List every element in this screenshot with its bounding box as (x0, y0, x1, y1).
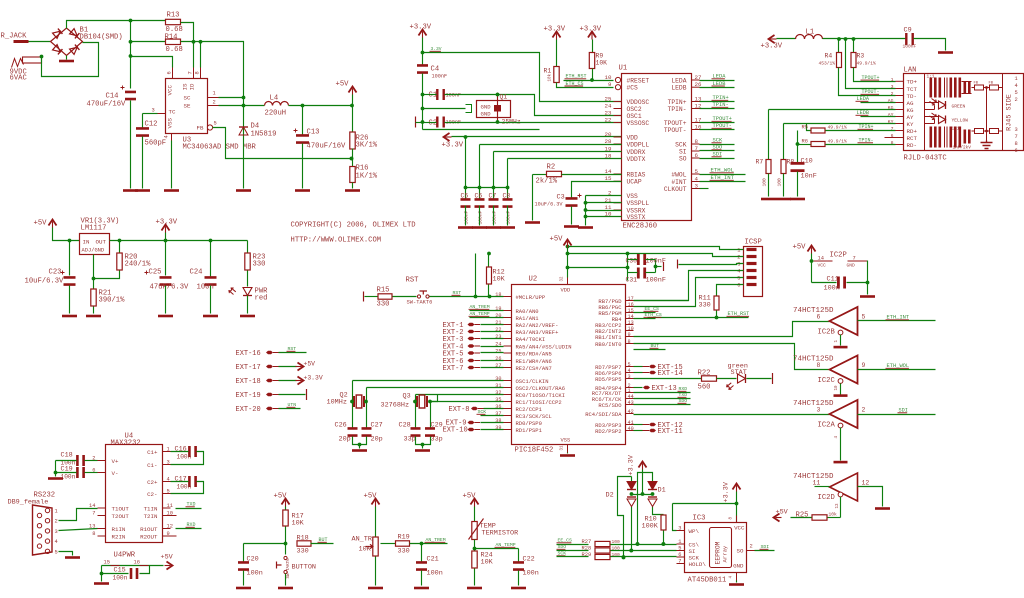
svg-text:RCT: RCT (907, 135, 918, 142)
svg-text:6: 6 (1015, 148, 1018, 154)
svg-text:RC1/T1OSI/CCP2: RC1/T1OSI/CCP2 (516, 399, 562, 406)
svg-text:WP\: WP\ (689, 528, 700, 535)
svg-text:IC2C: IC2C (818, 377, 836, 385)
svg-text:RJLD-043TC: RJLD-043TC (904, 155, 948, 163)
svg-text:U1: U1 (619, 65, 628, 73)
svg-text:VDDPLL: VDDPLL (627, 141, 650, 148)
svg-text:C22: C22 (523, 556, 535, 564)
svg-text:C11: C11 (827, 276, 839, 284)
svg-text:GND: GND (481, 104, 492, 111)
svg-text:SE: SE (184, 103, 191, 110)
svg-text:+5V: +5V (161, 554, 174, 562)
svg-text:RE1/WR#/AN6: RE1/WR#/AN6 (516, 358, 552, 365)
svg-text:8: 8 (628, 339, 631, 345)
svg-text:MC34063AD SMD MBR: MC34063AD SMD MBR (183, 144, 257, 152)
svg-text:32: 32 (495, 390, 501, 396)
svg-text:IC2B: IC2B (818, 329, 836, 337)
svg-text:C10: C10 (801, 158, 813, 166)
svg-text:100nF: 100nF (505, 210, 511, 224)
svg-text:FB: FB (197, 125, 204, 132)
svg-text:VDDOSC: VDDOSC (627, 99, 650, 106)
svg-text:EXT-14: EXT-14 (658, 370, 683, 378)
svg-text:R22: R22 (698, 370, 711, 378)
svg-text:HTTP://WWW.OLIMEX.COM: HTTP://WWW.OLIMEX.COM (291, 237, 382, 245)
svg-text:OUT: OUT (96, 239, 107, 246)
svg-text:CLKOUT: CLKOUT (664, 186, 687, 193)
svg-text:5: 5 (678, 546, 681, 552)
svg-text:20p: 20p (371, 436, 383, 444)
svg-text:Q3: Q3 (403, 393, 411, 401)
svg-text:SW-TAKT6: SW-TAKT6 (287, 558, 291, 579)
svg-text:C2-: C2- (147, 491, 157, 498)
svg-text:3: 3 (678, 526, 681, 532)
svg-text:Array: Array (722, 545, 729, 562)
svg-text:100K: 100K (642, 523, 659, 531)
svg-text:10k: 10k (548, 73, 553, 81)
svg-text:560pF: 560pF (145, 140, 167, 148)
svg-text:C2: C2 (429, 120, 438, 128)
svg-text:49.9/1%: 49.9/1% (828, 125, 848, 131)
svg-text:10uF/6.3V: 10uF/6.3V (535, 202, 564, 208)
svg-text:+5V: +5V (34, 220, 48, 228)
svg-text:31: 31 (495, 383, 501, 389)
svg-text:100nF: 100nF (491, 210, 497, 224)
svg-text:74HCT125D: 74HCT125D (793, 400, 834, 408)
svg-text:GREEN: GREEN (952, 104, 966, 110)
svg-text:R5: R5 (802, 125, 808, 131)
svg-text:R25: R25 (796, 512, 809, 520)
svg-text:5: 5 (1015, 90, 1018, 96)
svg-text:7: 7 (92, 511, 95, 517)
svg-text:VCC: VCC (734, 525, 745, 532)
svg-text:1: 1 (891, 77, 894, 83)
svg-text:LM1117: LM1117 (81, 225, 107, 233)
svg-text:RA3/AN3/VREF+: RA3/AN3/VREF+ (516, 329, 559, 336)
svg-text:1: 1 (213, 91, 216, 97)
svg-text:10: 10 (605, 74, 612, 81)
svg-text:100nF: 100nF (463, 210, 469, 224)
svg-text:RC0/T1OSO/T1CKI: RC0/T1OSO/T1CKI (516, 392, 566, 399)
svg-text:ENC28J60: ENC28J60 (623, 223, 658, 231)
svg-text:R_JACK: R_JACK (1, 33, 28, 41)
svg-text:+3.3V: +3.3V (410, 24, 432, 32)
svg-text:1K/1%: 1K/1% (356, 173, 378, 181)
svg-text:+3.3V: +3.3V (304, 375, 323, 382)
svg-text:8: 8 (1015, 141, 1018, 147)
svg-text:9: 9 (628, 332, 631, 338)
svg-text:RC3/SCK/SCL: RC3/SCK/SCL (516, 413, 552, 420)
svg-text:25: 25 (605, 96, 612, 103)
svg-text:330: 330 (699, 302, 711, 310)
svg-text:EXT-16: EXT-16 (236, 350, 261, 358)
svg-text:TPOUT-: TPOUT- (664, 127, 687, 134)
svg-text:100nF: 100nF (646, 258, 666, 266)
svg-text:C21: C21 (427, 556, 439, 564)
svg-text:BUTTON: BUTTON (292, 564, 316, 572)
svg-text:IC2P: IC2P (830, 252, 847, 260)
svg-text:C14: C14 (106, 93, 119, 101)
svg-text:6: 6 (737, 283, 740, 289)
svg-text:330: 330 (398, 548, 410, 556)
svg-text:C23: C23 (49, 269, 62, 277)
svg-text:390/1%: 390/1% (99, 297, 126, 305)
svg-text:47uF/6.3V: 47uF/6.3V (150, 284, 190, 292)
svg-text:SW-TAKT6: SW-TAKT6 (407, 300, 433, 306)
svg-text:10K: 10K (481, 559, 494, 567)
svg-text:R15: R15 (377, 287, 390, 295)
svg-text:18: 18 (495, 292, 501, 298)
svg-text:C2+: C2+ (147, 479, 158, 486)
svg-text:EXT-7: EXT-7 (443, 365, 464, 373)
svg-text:6: 6 (891, 133, 894, 139)
svg-text:D4: D4 (251, 123, 260, 131)
svg-text:VCC: VCC (167, 85, 174, 96)
svg-text:RA2/AN2/VREF-: RA2/AN2/VREF- (516, 322, 559, 329)
svg-text:RC4/SDI/SDA: RC4/SDI/SDA (585, 411, 622, 418)
svg-text:2: 2 (891, 91, 894, 97)
svg-text:330: 330 (377, 301, 390, 309)
svg-text:IC3: IC3 (693, 515, 706, 523)
svg-text:470uF/16V: 470uF/16V (87, 101, 127, 109)
svg-text:10nF: 10nF (801, 173, 817, 181)
svg-text:10MHz: 10MHz (327, 399, 347, 407)
svg-text:31: 31 (561, 445, 565, 451)
svg-text:D2: D2 (606, 492, 614, 500)
svg-text:9: 9 (608, 81, 612, 88)
svg-text:OSC2: OSC2 (627, 106, 642, 113)
svg-text:22: 22 (495, 327, 501, 333)
svg-text:R1IN: R1IN (112, 526, 126, 533)
svg-text:C25: C25 (149, 269, 162, 277)
svg-text:23: 23 (605, 110, 612, 117)
svg-text:3: 3 (891, 84, 894, 90)
svg-text:3: 3 (167, 460, 170, 466)
svg-text:13: 13 (836, 503, 840, 509)
svg-text:+5V: +5V (793, 244, 807, 252)
svg-text:TC: TC (169, 109, 176, 116)
svg-text:8: 8 (92, 531, 95, 537)
svg-text:+3.3V: +3.3V (723, 481, 731, 502)
svg-text:4: 4 (164, 135, 170, 138)
svg-text:330: 330 (297, 548, 309, 556)
svg-text:RA0/AN0: RA0/AN0 (516, 308, 539, 315)
svg-text:1N5819: 1N5819 (251, 131, 277, 139)
svg-text:38: 38 (495, 418, 501, 424)
svg-text:AY: AY (888, 112, 894, 118)
svg-text:5: 5 (167, 489, 170, 495)
svg-text:3: 3 (817, 407, 821, 414)
svg-text:100n: 100n (523, 570, 539, 578)
svg-text:3: 3 (628, 374, 631, 380)
svg-text:TPIN+: TPIN+ (668, 99, 687, 106)
svg-text:RB0/INT0: RB0/INT0 (595, 341, 621, 348)
svg-text:5: 5 (55, 549, 58, 555)
svg-text:6: 6 (695, 152, 699, 159)
svg-text:R2: R2 (547, 164, 556, 172)
svg-text:RD2/PSP2: RD2/PSP2 (595, 428, 621, 435)
svg-text:KG: KG (888, 105, 894, 111)
svg-text:VDDRX: VDDRX (627, 149, 646, 156)
svg-text:10k: 10k (829, 512, 838, 518)
svg-text:R19: R19 (398, 534, 410, 542)
svg-text:C18: C18 (61, 452, 73, 460)
svg-text:ID: ID (189, 83, 196, 90)
svg-text:8: 8 (195, 71, 201, 74)
svg-text:R27: R27 (582, 539, 592, 545)
svg-text:453/1%: 453/1% (819, 61, 836, 67)
svg-text:RD-: RD- (907, 142, 917, 149)
svg-text:RE2/CS#/AN7: RE2/CS#/AN7 (516, 365, 552, 372)
svg-text:100n: 100n (113, 575, 128, 582)
svg-text:RC2/CCP1: RC2/CCP1 (516, 406, 543, 413)
svg-text:EXT-11: EXT-11 (658, 428, 683, 436)
svg-text:AG: AG (888, 98, 894, 104)
svg-text:#CS: #CS (627, 85, 639, 92)
svg-text:25: 25 (495, 349, 501, 355)
svg-text:49.9/1%: 49.9/1% (828, 139, 848, 145)
svg-text:100: 100 (762, 178, 768, 187)
svg-text:R18: R18 (297, 535, 309, 543)
svg-text:VSS: VSS (167, 118, 174, 129)
svg-text:10K: 10K (292, 520, 305, 528)
svg-text:ADJ/GND: ADJ/GND (82, 248, 105, 254)
svg-text:R3: R3 (857, 53, 865, 60)
svg-text:23: 23 (495, 334, 501, 340)
svg-text:40: 40 (628, 426, 634, 432)
svg-text:D1: D1 (658, 487, 666, 495)
svg-text:C1+: C1+ (147, 449, 158, 456)
svg-text:10K: 10K (359, 546, 372, 554)
svg-text:Q1: Q1 (500, 94, 508, 101)
svg-text:SC: SC (184, 95, 191, 102)
svg-text:R1OUT: R1OUT (140, 526, 158, 533)
svg-text:37: 37 (495, 411, 501, 417)
svg-text:VSSTX: VSSTX (627, 214, 646, 221)
svg-text:VDDTX: VDDTX (627, 156, 646, 163)
svg-text:6VAC: 6VAC (10, 75, 28, 83)
svg-text:U2: U2 (529, 276, 538, 284)
svg-text:R16: R16 (356, 165, 369, 173)
svg-text:330: 330 (253, 261, 266, 269)
svg-text:100: 100 (612, 552, 621, 558)
svg-text:39: 39 (495, 425, 501, 431)
svg-text:#INT: #INT (671, 179, 686, 186)
svg-text:VDD: VDD (627, 134, 639, 141)
svg-text:R6: R6 (802, 139, 808, 145)
svg-text:L4: L4 (270, 95, 279, 103)
svg-text:T1OUT: T1OUT (112, 505, 130, 512)
svg-text:R7: R7 (756, 159, 764, 166)
svg-text:C30: C30 (626, 258, 638, 265)
svg-text:C1-: C1- (147, 462, 157, 469)
svg-text:C1: C1 (429, 92, 438, 100)
svg-text:10: 10 (835, 385, 839, 391)
svg-text:14: 14 (818, 256, 824, 262)
svg-text:220uH: 220uH (265, 110, 287, 118)
svg-text:#MCLR/UPP: #MCLR/UPP (516, 294, 546, 301)
svg-text:TPIN-: TPIN- (668, 106, 687, 113)
svg-text:OSC1: OSC1 (627, 113, 642, 120)
svg-text:R13: R13 (167, 12, 180, 20)
svg-text:240/1%: 240/1% (125, 261, 152, 269)
svg-text:10uF/6.3V: 10uF/6.3V (25, 278, 65, 286)
svg-text:20: 20 (495, 313, 501, 319)
svg-text:C15: C15 (114, 567, 126, 575)
svg-text:4: 4 (737, 269, 740, 275)
svg-text:R2OUT: R2OUT (140, 533, 158, 540)
svg-text:IC2A: IC2A (818, 422, 836, 430)
svg-text:MAX3232: MAX3232 (111, 440, 141, 448)
svg-text:SO: SO (679, 155, 687, 162)
svg-text:1: 1 (1015, 76, 1018, 82)
svg-text:100n: 100n (177, 454, 192, 461)
svg-text:100n: 100n (824, 285, 840, 293)
svg-text:TPOUT+: TPOUT+ (664, 120, 687, 127)
svg-text:49.9/1%: 49.9/1% (857, 61, 877, 67)
svg-text:26: 26 (495, 356, 501, 362)
svg-text:GND: GND (733, 563, 744, 570)
svg-text:TCT: TCT (907, 86, 918, 93)
svg-text:KY: KY (888, 119, 894, 125)
svg-text:EXT-19: EXT-19 (236, 392, 261, 400)
svg-text:7: 7 (891, 126, 894, 132)
svg-text:R29: R29 (582, 552, 592, 558)
svg-text:EEPROM: EEPROM (715, 541, 722, 564)
svg-text:35: 35 (495, 397, 501, 403)
svg-text:4: 4 (695, 176, 699, 183)
svg-text:100n: 100n (247, 570, 263, 578)
svg-text:IN: IN (83, 239, 90, 246)
svg-text:LEDB: LEDB (671, 85, 686, 92)
svg-text:10K: 10K (493, 276, 506, 284)
svg-text:2: 2 (737, 255, 740, 261)
svg-text:4: 4 (1015, 83, 1018, 89)
svg-text:3: 3 (1015, 127, 1018, 133)
svg-text:8: 8 (891, 140, 894, 146)
svg-text:1: 1 (55, 509, 58, 515)
svg-text:6: 6 (817, 314, 821, 321)
svg-text:VSS: VSS (627, 193, 639, 200)
svg-text:YELLOW: YELLOW (952, 118, 969, 124)
svg-text:RBIAS: RBIAS (627, 171, 646, 178)
svg-text:+3.3V: +3.3V (628, 454, 636, 475)
svg-text:1: 1 (167, 447, 170, 453)
svg-text:C17: C17 (175, 476, 187, 484)
svg-text:3: 3 (695, 183, 699, 190)
svg-text:R2IN: R2IN (112, 533, 126, 540)
svg-text:T2IN: T2IN (144, 513, 158, 520)
svg-text:C4: C4 (431, 66, 440, 74)
svg-text:100nF: 100nF (446, 93, 462, 99)
svg-text:+5V: +5V (776, 509, 789, 517)
svg-text:AY: AY (907, 114, 914, 121)
svg-text:DB104(SMD): DB104(SMD) (80, 34, 123, 42)
svg-text:SI: SI (679, 148, 687, 155)
svg-text:8: 8 (695, 138, 699, 145)
svg-text:+3.3V: +3.3V (442, 142, 464, 150)
svg-text:100nF: 100nF (477, 210, 483, 224)
svg-text:AG: AG (907, 100, 914, 107)
svg-text:+5V: +5V (304, 361, 316, 368)
svg-text:+3.3V: +3.3V (544, 26, 566, 34)
svg-text:RC5/SDO: RC5/SDO (598, 402, 622, 409)
svg-text:27: 27 (495, 363, 501, 369)
svg-text:24: 24 (605, 103, 612, 110)
svg-text:TERMISTOR: TERMISTOR (482, 530, 519, 538)
svg-text:21: 21 (495, 320, 501, 326)
svg-text:#WOL: #WOL (671, 171, 686, 178)
svg-text:10K: 10K (596, 60, 608, 67)
svg-text:12: 12 (167, 524, 173, 530)
svg-text:43: 43 (628, 400, 634, 406)
svg-text:SCK: SCK (675, 141, 687, 148)
svg-text:IC2D: IC2D (818, 494, 835, 502)
svg-text:AT45DB011: AT45DB011 (688, 577, 727, 585)
svg-text:RD0/PSP0: RD0/PSP0 (516, 420, 542, 427)
svg-text:100n: 100n (427, 570, 443, 578)
svg-text:UCAP: UCAP (627, 179, 642, 186)
svg-text:7: 7 (853, 256, 856, 262)
svg-text:SO: SO (737, 548, 744, 555)
svg-text:1nF/2kV: 1nF/2kV (953, 146, 972, 151)
svg-text:0.68: 0.68 (166, 46, 183, 54)
svg-text:100nF: 100nF (903, 44, 917, 50)
svg-text:7: 7 (695, 145, 699, 152)
svg-text:GND: GND (847, 263, 856, 269)
svg-text:U4PWR: U4PWR (114, 552, 136, 560)
svg-text:C27: C27 (371, 422, 383, 430)
svg-text:7: 7 (188, 71, 194, 74)
svg-text:EXT-17: EXT-17 (236, 364, 261, 372)
svg-text:FB: FB (974, 82, 979, 86)
svg-text:20: 20 (605, 131, 612, 138)
svg-text:36: 36 (495, 404, 501, 410)
svg-text:2k/1%: 2k/1% (536, 178, 558, 186)
svg-text:FB: FB (989, 82, 994, 86)
svg-text:100n: 100n (177, 484, 192, 491)
svg-text:6: 6 (167, 71, 173, 74)
svg-text:red: red (255, 295, 268, 303)
svg-text:EXT-10: EXT-10 (443, 427, 468, 435)
svg-text:11: 11 (167, 503, 173, 509)
svg-text:4: 4 (167, 477, 170, 483)
svg-text:EXT-20: EXT-20 (236, 406, 261, 414)
svg-text:AN_TR: AN_TR (352, 536, 372, 544)
svg-text:2: 2 (750, 544, 753, 550)
svg-text:T1IN: T1IN (144, 505, 158, 512)
svg-text:2: 2 (1015, 97, 1018, 103)
svg-text:32: 32 (561, 276, 565, 282)
svg-text:12: 12 (862, 480, 870, 487)
svg-text:T2OUT: T2OUT (112, 513, 130, 520)
svg-text:#RESET: #RESET (627, 77, 650, 84)
svg-text:RD+: RD+ (907, 128, 918, 135)
svg-text:IS: IS (182, 83, 189, 90)
svg-text:TD+: TD+ (907, 79, 918, 86)
svg-text:COPYRIGHT(C) 2006, OLIMEX LTD: COPYRIGHT(C) 2006, OLIMEX LTD (291, 222, 416, 230)
svg-text:EXT-13: EXT-13 (652, 385, 677, 393)
svg-text:5: 5 (862, 314, 866, 321)
svg-text:2: 2 (213, 100, 216, 106)
svg-text:V-: V- (112, 470, 119, 477)
svg-text:4: 4 (55, 539, 58, 545)
svg-text:RA5/AN4/#SS/LUDIN: RA5/AN4/#SS/LUDIN (516, 343, 572, 350)
svg-text:100n: 100n (197, 284, 214, 292)
svg-text:5: 5 (737, 276, 740, 282)
svg-text:16: 16 (134, 560, 140, 566)
svg-text:ICSP: ICSP (745, 239, 762, 247)
svg-text:RJ45 SIDE: RJ45 SIDE (1006, 94, 1014, 131)
